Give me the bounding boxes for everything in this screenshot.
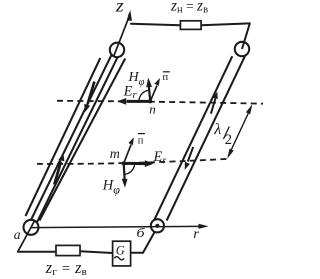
svg-text:б: б <box>136 225 145 240</box>
svg-text:zг = zв: zг = zв <box>45 258 87 278</box>
svg-text:z: z <box>115 0 124 16</box>
svg-text:Er: Er <box>123 84 138 102</box>
svg-text:Hφ: Hφ <box>102 178 120 197</box>
svg-text:zн = zв: zн = zв <box>170 0 208 15</box>
svg-text:2: 2 <box>225 132 232 148</box>
svg-text:п: п <box>138 135 144 146</box>
svg-text:G: G <box>116 244 125 258</box>
svg-text:Er: Er <box>153 149 167 167</box>
svg-text:r: r <box>193 226 200 241</box>
svg-text:п: п <box>163 72 169 83</box>
svg-text:a: a <box>14 227 21 242</box>
svg-text:m: m <box>110 147 120 162</box>
svg-text:n: n <box>149 101 156 116</box>
svg-text:λ: λ <box>213 121 221 138</box>
